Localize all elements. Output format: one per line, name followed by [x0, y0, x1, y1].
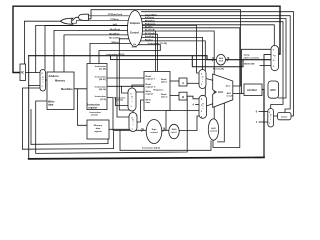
wire OR output to PC enable	[24, 21, 60, 64]
wire A out to ALUSrcA mux input 1	[187, 82, 199, 84]
wire 8000 0180 constant to PCSource mux input 3	[260, 65, 271, 67]
memory unit	[47, 72, 74, 110]
wire Read data 1 to A	[170, 80, 179, 82]
svg-text:ALU: ALU	[211, 127, 216, 130]
wire ALUOp right and down to ALU control	[143, 28, 240, 148]
mux RegDst	[128, 88, 136, 111]
svg-text:register: register	[94, 130, 102, 133]
svg-text:IRWrite: IRWrite	[111, 41, 119, 44]
svg-text:Registers: Registers	[154, 88, 165, 91]
wire RegWrite right and down to registers	[155, 31, 157, 72]
wire ALUSrcB row down to mux select	[140, 41, 205, 95]
svg-text:MemWrite: MemWrite	[109, 33, 120, 36]
wire MemData out to IR	[74, 88, 87, 90]
svg-text:PCWrite: PCWrite	[110, 18, 119, 21]
wire PCWrite to OR input	[73, 20, 128, 23]
wire CauseWrite right and down to IntCause mux select	[141, 16, 291, 113]
svg-text:data 1: data 1	[161, 80, 168, 83]
wire ALUOut left vertical down to bottom	[28, 56, 30, 159]
svg-text:Address: Address	[49, 74, 60, 78]
svg-text:MemtoReg: MemtoReg	[109, 36, 121, 39]
svg-text:Instruction: Instruction	[90, 111, 102, 114]
wire PC feed from PCSource mux around top	[13, 6, 280, 72]
wire ALU control output to ALU	[218, 102, 225, 142]
svg-text:EPCWrite: EPCWrite	[145, 19, 156, 22]
tick 32	[163, 129, 165, 131]
wire Read data 2 to B	[170, 95, 179, 97]
wire IntCause mux out to Cause	[274, 115, 278, 117]
wire IR[25-21] to Read register 1	[107, 77, 144, 79]
wire IR[20-16] to Read register 2	[107, 85, 144, 87]
wire IntCause constant 1 stub	[259, 121, 268, 123]
mux vertical text labels	[42, 56, 276, 126]
oval shift left 2	[169, 124, 179, 138]
svg-text:Instruction: Instruction	[95, 95, 107, 98]
mux input numerals	[42, 50, 275, 131]
svg-text:Instruction: Instruction	[95, 75, 107, 78]
mux ALUSrcB	[199, 95, 207, 118]
svg-text:[25-21]: [25-21]	[99, 79, 106, 81]
svg-text:ALUOp: ALUOp	[145, 25, 153, 28]
wire IR[15-0] down to sign extend	[107, 98, 146, 131]
wire ALUOut out right and up to PCSource input 1	[261, 55, 271, 90]
svg-text:ALUSrcA: ALUSrcA	[145, 32, 155, 35]
wire bottom extra	[31, 143, 108, 146]
svg-text:Instruction: Instruction	[95, 86, 107, 89]
svg-text:ALU: ALU	[218, 90, 223, 94]
gate AND (PCWriteCond AND Zero)	[79, 14, 89, 20]
wire jump shift output to PCSource mux input 2	[225, 59, 271, 61]
wire B out to ALUSrcB mux input 0	[187, 96, 199, 99]
wire PC output up and right to ALUSrcA mux input 0	[36, 25, 199, 73]
wire MemRead down to memory	[54, 30, 128, 72]
register A	[179, 78, 187, 86]
wire RegDst mux out to Write register	[136, 91, 144, 93]
svg-text:Instruction [15-0]: Instruction [15-0]	[142, 147, 160, 150]
svg-text:Sign: Sign	[152, 129, 157, 131]
register ALUOut	[244, 84, 262, 96]
svg-text:x: x	[202, 108, 203, 110]
svg-text:Zero: Zero	[226, 86, 231, 88]
svg-text:register 2: register 2	[146, 85, 157, 88]
svg-text:left 2: left 2	[171, 131, 177, 134]
wire ALU result to ALUOut register	[233, 93, 244, 95]
oval Control	[128, 11, 143, 47]
svg-text:[15-0]: [15-0]	[92, 115, 98, 117]
oval shift left 2 (jump)	[216, 54, 225, 65]
svg-text:address [31-0]: address [31-0]	[244, 57, 259, 59]
svg-text:register 1: register 1	[146, 77, 157, 80]
wire RegDst right and down to RegDst mux	[141, 37, 202, 69]
wire MDR out to MemtoReg mux input 1	[109, 128, 129, 130]
register B	[179, 92, 187, 100]
svg-text:left 2: left 2	[219, 59, 223, 62]
svg-text:B: B	[182, 95, 184, 99]
wire PC output to IorD mux input 0	[26, 72, 41, 74]
wire IR[20-16] down to RegDst mux input 0	[122, 86, 128, 93]
wire EPCWrite right and down to EPC side	[142, 22, 283, 109]
svg-text:EPC: EPC	[271, 88, 276, 92]
wire ALUSrcB mux out to ALU	[207, 104, 213, 106]
svg-text:Outputs: Outputs	[130, 21, 140, 25]
svg-text:x: x	[270, 119, 271, 121]
svg-text:[20-16]: [20-16]	[99, 89, 106, 91]
wire shift left 2 out up to ALUSrcB input 3	[179, 116, 199, 131]
svg-text:ALUSrcB: ALUSrcB	[145, 29, 155, 32]
svg-text:[31-26]: [31-26]	[99, 69, 106, 71]
wire MemtoReg mux out up to Write data	[137, 100, 144, 122]
svg-text:Shift: Shift	[172, 128, 177, 131]
svg-text:[15-11]: [15-11]	[116, 100, 123, 102]
svg-text:PC [31-28]: PC [31-28]	[213, 69, 224, 71]
svg-text:RegDst: RegDst	[145, 39, 153, 42]
svg-text:x: x	[202, 81, 203, 83]
mux IntCause	[268, 109, 274, 128]
boxes and shapes	[20, 11, 291, 144]
svg-text:RegWrite: RegWrite	[145, 35, 155, 38]
svg-text:register: register	[146, 93, 154, 96]
svg-text:8000 0180: 8000 0180	[244, 64, 255, 66]
svg-text:data: data	[96, 127, 101, 130]
instruction register	[87, 64, 107, 110]
wire top mystery row to Cause register	[142, 12, 294, 116]
wire PC[31-28] branch down to jump address merge	[192, 56, 243, 67]
svg-text:x: x	[42, 81, 43, 83]
register Cause	[278, 113, 292, 120]
mux ALUSrcA	[199, 70, 206, 89]
wire ALUSrcA right and down to mux select	[132, 34, 158, 88]
svg-text:control: control	[210, 130, 218, 133]
svg-text:Instruction: Instruction	[95, 65, 107, 68]
wire PCSource right and down to PCSource mux select	[142, 25, 274, 46]
wire MemData down to memory data register	[78, 89, 88, 126]
wire IorD control down to mux	[45, 26, 128, 70]
svg-text:Instruction [25-0]: Instruction [25-0]	[107, 53, 125, 56]
mux MemtoReg	[129, 113, 137, 132]
svg-text:x: x	[274, 60, 275, 62]
mux IorD	[40, 70, 46, 92]
wire IntCause constant 0 stub	[259, 111, 268, 113]
wire IntCause right and down to EPC top	[141, 19, 286, 99]
wire IorD mux out to memory Address	[45, 79, 47, 81]
memory data register	[87, 120, 109, 139]
wire long horizontal jump/ALUOut line	[29, 56, 217, 60]
tick 28	[227, 59, 229, 61]
svg-text:A: A	[182, 81, 184, 85]
svg-text:x: x	[132, 101, 133, 103]
svg-text:CauseWrite: CauseWrite	[145, 13, 158, 16]
register PC	[20, 64, 26, 81]
wire sign extend to shift left 2	[166, 129, 169, 131]
mux PCSource	[271, 46, 279, 71]
svg-text:ALUOut: ALUOut	[247, 88, 257, 92]
svg-text:Control: Control	[130, 30, 139, 34]
svg-text:MemRead: MemRead	[110, 29, 121, 31]
wire constant 4 to ALUSrcB input 1	[196, 104, 200, 106]
wire sign extend out up to ALUSrcB input 2	[162, 111, 199, 131]
tick 26	[212, 59, 214, 61]
svg-text:x: x	[133, 124, 134, 126]
svg-text:PCWriteCond: PCWriteCond	[108, 13, 123, 16]
wire IRWrite down to instruction register	[90, 43, 131, 63]
wire Instruction[25-0] tap second line	[111, 56, 217, 60]
svg-text:IorD: IorD	[113, 24, 118, 26]
wire branch down to MemtoReg mux input 0	[117, 56, 129, 117]
wire ALU result up to PCSource mux input 0	[242, 49, 272, 93]
svg-text:[5-0]: [5-0]	[132, 46, 137, 48]
wire PCWriteCond to AND input	[89, 15, 129, 17]
wire ALUSrcB right and down to mux select	[142, 31, 214, 119]
svg-text:Instruction [31-26]: Instruction [31-26]	[148, 42, 167, 45]
svg-text:[15-0]: [15-0]	[100, 99, 106, 101]
ALU	[213, 74, 233, 107]
svg-text:Jump: Jump	[244, 55, 250, 57]
wire MemtoReg down to mux	[119, 39, 133, 113]
svg-text:Memory: Memory	[55, 79, 66, 83]
svg-text:IntCause: IntCause	[145, 16, 155, 19]
svg-text:data 2: data 2	[161, 96, 168, 99]
svg-text:Cause: Cause	[281, 116, 288, 118]
register EPC	[268, 81, 279, 98]
tick 16	[142, 129, 144, 131]
wire MemWrite down to memory	[64, 35, 128, 72]
svg-text:result: result	[226, 95, 232, 98]
svg-text:register: register	[89, 106, 98, 109]
wire AND output to OR input	[72, 17, 78, 20]
wire second bracket to IorD	[23, 88, 41, 149]
wire B down to memory Write data	[36, 96, 188, 153]
svg-text:PC: PC	[21, 71, 25, 75]
oval sign extend	[146, 120, 162, 144]
register file	[144, 72, 170, 111]
svg-text:PCSource: PCSource	[145, 24, 156, 26]
svg-text:extend: extend	[150, 131, 158, 134]
oval ALU control	[208, 119, 218, 140]
wire Instruction[15-11] to RegDst mux input 1	[115, 98, 128, 106]
wire Instruction[5-0] to ALU control	[120, 130, 211, 150]
svg-text:data: data	[146, 101, 151, 104]
gate OR (PC write enable)	[61, 18, 73, 24]
svg-text:ALU: ALU	[227, 92, 232, 95]
svg-text:Memory: Memory	[94, 125, 103, 127]
svg-text:data: data	[48, 103, 54, 107]
wire Instruction[31-26] from IR top to Control input	[99, 45, 160, 64]
wire ALUSrcA mux out to ALU	[206, 79, 213, 81]
svg-text:MemData: MemData	[61, 87, 73, 91]
wire Zero from ALU up to AND input	[89, 10, 241, 86]
